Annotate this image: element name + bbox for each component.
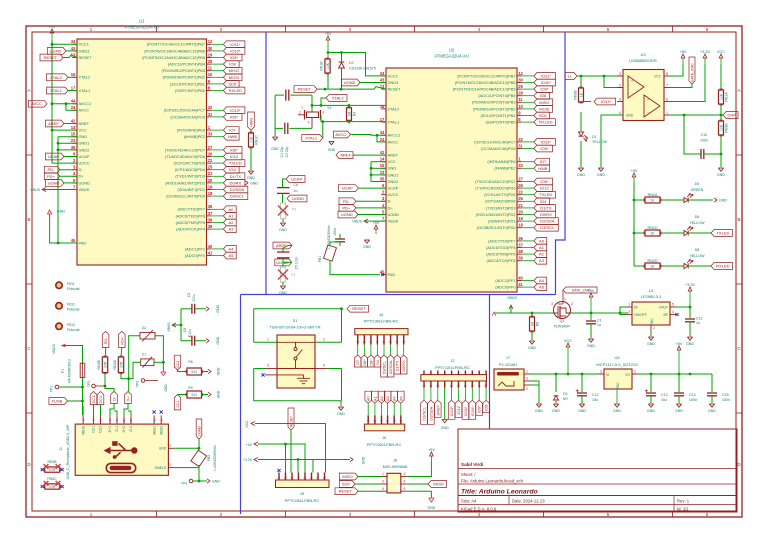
svg-text:RN3B: RN3B bbox=[47, 460, 57, 464]
svg-text:IO5*: IO5* bbox=[540, 146, 548, 151]
svg-text:UGND: UGND bbox=[79, 180, 91, 185]
svg-text:ATMEGA32U4-XU: ATMEGA32U4-XU bbox=[434, 54, 469, 59]
wire +5V rail U1 bbox=[52, 40, 77, 44]
svg-text:15: 15 bbox=[71, 132, 76, 137]
svg-text:VCC: VCC bbox=[717, 50, 725, 54]
label UCAP above C6 bbox=[286, 176, 305, 183]
svg-text:GND: GND bbox=[647, 342, 655, 346]
svg-text:GND: GND bbox=[337, 412, 345, 416]
svg-text:10K: 10K bbox=[719, 124, 723, 131]
svg-text:SBU1: SBU1 bbox=[152, 426, 156, 435]
svg-text:IO7: IO7 bbox=[229, 128, 236, 133]
svg-text:XTAL1: XTAL1 bbox=[79, 88, 91, 93]
capacitor C3 22p bbox=[285, 90, 287, 101]
svg-text:(ADC0)PF0: (ADC0)PF0 bbox=[495, 285, 516, 290]
svg-text:6: 6 bbox=[457, 385, 461, 387]
svg-text:GND: GND bbox=[552, 409, 560, 413]
svg-text:2: 2 bbox=[634, 370, 636, 374]
svg-text:AREF: AREF bbox=[340, 153, 351, 158]
svg-text:HWB: HWB bbox=[538, 166, 548, 171]
capacitor C15 100n bbox=[711, 374, 713, 392]
svg-text:27: 27 bbox=[518, 176, 523, 181]
svg-text:VBUS: VBUS bbox=[352, 219, 362, 223]
svg-text:D2/SDA: D2/SDA bbox=[230, 187, 245, 192]
svg-text:LM358BIDGKR: LM358BIDGKR bbox=[629, 58, 657, 63]
svg-text:(PCINT6/OC1B/OC4B/ADC13)PB6: (PCINT6/OC1B/OC4B/ADC13)PB6 bbox=[144, 48, 205, 53]
svg-text:1K: 1K bbox=[579, 92, 583, 97]
label MOSI at J6 bbox=[407, 483, 428, 485]
svg-text:GND: GND bbox=[613, 409, 621, 413]
diode D3 bbox=[555, 374, 557, 392]
svg-text:(XCK1/#CTS)PD5: (XCK1/#CTS)PD5 bbox=[174, 161, 205, 166]
svg-text:CC1: CC1 bbox=[92, 426, 96, 433]
svg-text:511: 511 bbox=[191, 370, 197, 374]
svg-text:A1: A1 bbox=[229, 213, 235, 218]
svg-text:GND3: GND3 bbox=[79, 48, 90, 53]
svg-text:IO12: IO12 bbox=[230, 154, 239, 159]
op-amp pin stubs bbox=[617, 75, 623, 77]
svg-text:M20-9990846: M20-9990846 bbox=[383, 464, 408, 469]
svg-text:(ADC0)PF0: (ADC0)PF0 bbox=[185, 253, 206, 258]
gnd under C11 bbox=[687, 337, 692, 340]
svg-text:C13: C13 bbox=[661, 393, 668, 397]
svg-text:GND3: GND3 bbox=[388, 80, 399, 85]
varistor Z2 bbox=[140, 332, 155, 339]
svg-text:D+: D+ bbox=[126, 396, 131, 402]
label AREF at U2 bbox=[336, 152, 353, 159]
svg-text:S1: S1 bbox=[168, 463, 172, 467]
resistor RN3A 22R usb bbox=[120, 347, 123, 357]
gnd under D1 bbox=[578, 168, 583, 171]
wire LL to op-amp bbox=[577, 75, 623, 77]
svg-text:RXLED: RXLED bbox=[539, 120, 552, 125]
svg-text:1: 1 bbox=[356, 341, 360, 343]
svg-text:MCP1117-5.0_SOT223: MCP1117-5.0_SOT223 bbox=[596, 362, 638, 367]
svg-text:F1: F1 bbox=[61, 369, 65, 373]
svg-text:XTAL2: XTAL2 bbox=[50, 75, 63, 80]
svg-text:2: 2 bbox=[362, 341, 366, 343]
label AREF lower bbox=[273, 242, 292, 249]
svg-text:GATE_CMD: GATE_CMD bbox=[691, 63, 695, 82]
svg-text:PD+: PD+ bbox=[47, 174, 56, 179]
svg-text:3: 3 bbox=[290, 477, 294, 479]
label RESET to reset net bbox=[294, 86, 317, 93]
svg-text:A1: A1 bbox=[168, 444, 172, 448]
svg-text:IO11*: IO11* bbox=[463, 406, 468, 416]
svg-text:GND: GND bbox=[79, 134, 88, 139]
svg-text:(PCINT5/OC1A/#OC4B/ADC12)PB5: (PCINT5/OC1A/#OC4B/ADC12)PB5 bbox=[142, 55, 205, 60]
svg-text:A7: A7 bbox=[115, 418, 119, 422]
polyfuse F1 DNP bbox=[282, 262, 284, 267]
svg-text:43: 43 bbox=[380, 77, 385, 82]
svg-text:C12: C12 bbox=[592, 393, 599, 397]
svg-text:11: 11 bbox=[518, 97, 523, 102]
svg-text:C5 100n: C5 100n bbox=[295, 256, 299, 269]
svg-text:FID1: FID1 bbox=[67, 282, 75, 286]
svg-text:RD-: RD- bbox=[103, 337, 108, 345]
svg-text:1M: 1M bbox=[347, 112, 351, 117]
svg-text:GND: GND bbox=[427, 506, 435, 510]
svg-text:41: 41 bbox=[208, 250, 213, 255]
gnd under AVCC label bbox=[329, 142, 334, 145]
svg-text:2: 2 bbox=[429, 385, 433, 387]
svg-text:100n: 100n bbox=[689, 398, 697, 402]
svg-text:(PCINT6/OC1B/OC4B/ADC13)PB6: (PCINT6/OC1B/OC4B/ADC13)PB6 bbox=[455, 80, 516, 85]
svg-text:25: 25 bbox=[208, 165, 213, 170]
svg-text:ATMEGA32U4-XU: ATMEGA32U4-XU bbox=[124, 25, 159, 30]
resistor RN1B pullup bbox=[325, 59, 330, 73]
resistor R3 1M bbox=[347, 108, 352, 121]
svg-text:YELLOW: YELLOW bbox=[690, 221, 706, 225]
blue partition line vertical left of U2 section bbox=[265, 32, 267, 295]
svg-text:GND: GND bbox=[388, 166, 397, 171]
svg-text:RXLED: RXLED bbox=[716, 264, 729, 269]
svg-text:45: 45 bbox=[71, 238, 76, 243]
svg-text:GND: GND bbox=[626, 114, 634, 118]
wire xtal2 node vertical bbox=[311, 95, 313, 110]
svg-text:(ADC5/TMS)PF5: (ADC5/TMS)PF5 bbox=[486, 252, 515, 257]
wire D+ net to usb bbox=[121, 373, 129, 391]
svg-text:3: 3 bbox=[386, 420, 390, 422]
gnd under F2 bbox=[280, 223, 285, 226]
svg-text:37: 37 bbox=[208, 211, 213, 216]
svg-text:30: 30 bbox=[208, 46, 213, 51]
svg-text:100n: 100n bbox=[333, 228, 337, 236]
svg-text:+: + bbox=[647, 98, 649, 102]
svg-text:+: + bbox=[631, 79, 633, 83]
wire VBUS to fuse bbox=[62, 346, 83, 364]
svg-text:(ADC7/TDI)PF7: (ADC7/TDI)PF7 bbox=[488, 238, 515, 243]
svg-text:IO12: IO12 bbox=[540, 186, 549, 191]
blue partition line vertical bottom-left box bbox=[240, 295, 242, 515]
svg-text:AREF: AREF bbox=[435, 404, 440, 415]
svg-text:YELLOW: YELLOW bbox=[592, 140, 608, 144]
svg-text:A1: A1 bbox=[539, 245, 545, 250]
svg-text:D2/SDA: D2/SDA bbox=[388, 360, 393, 374]
svg-text:R6: R6 bbox=[188, 360, 193, 364]
svg-text:2: 2 bbox=[404, 472, 406, 476]
label GND right arrow at 3.3 rail bbox=[319, 459, 351, 461]
svg-text:C1: C1 bbox=[597, 319, 602, 323]
svg-text:RESET: RESET bbox=[388, 87, 402, 92]
svg-text:A3: A3 bbox=[385, 396, 390, 401]
svg-text:TS06-66T-30-B4-100-G-SMT-TR: TS06-66T-30-B4-100-G-SMT-TR bbox=[270, 326, 321, 330]
svg-text:MOSI: MOSI bbox=[433, 482, 443, 487]
power VCC at J7 bbox=[567, 347, 569, 374]
label UCAP bbox=[45, 153, 64, 160]
title block bbox=[458, 429, 737, 512]
wire usb shield to FB2 bbox=[174, 467, 199, 469]
svg-text:IO8: IO8 bbox=[540, 93, 547, 98]
svg-text:C9: C9 bbox=[187, 293, 191, 297]
svg-text:D2: D2 bbox=[349, 61, 354, 65]
svg-text:10K: 10K bbox=[326, 62, 330, 69]
svg-text:29: 29 bbox=[518, 84, 523, 89]
svg-text:C4 22p: C4 22p bbox=[280, 147, 284, 158]
svg-text:MISO: MISO bbox=[229, 68, 239, 73]
svg-text:D1: D1 bbox=[592, 135, 597, 139]
svg-text:3: 3 bbox=[369, 341, 373, 343]
svg-text:(PCINT7/OC0A/OC1C/#RTS)PB7: (PCINT7/OC0A/OC1C/#RTS)PB7 bbox=[147, 42, 205, 47]
svg-text:(PDI/MOSI/PCINT2)PB2: (PDI/MOSI/PCINT2)PB2 bbox=[473, 106, 515, 111]
svg-text:2: 2 bbox=[653, 326, 655, 330]
svg-text:FB1: FB1 bbox=[318, 256, 322, 262]
svg-text:4: 4 bbox=[297, 477, 301, 479]
label PD+ bbox=[44, 173, 60, 180]
svg-text:IO11*: IO11* bbox=[541, 73, 551, 78]
svg-text:AVCC: AVCC bbox=[388, 139, 399, 144]
svg-text:22: 22 bbox=[208, 158, 213, 163]
svg-text:PPTC101LFBN-RC: PPTC101LFBN-RC bbox=[435, 365, 470, 370]
varistor Z1 bbox=[141, 359, 154, 366]
svg-text:1K: 1K bbox=[650, 199, 655, 203]
svg-text:PD-: PD- bbox=[48, 167, 56, 172]
svg-text:(PCINT7/OC0A/OC1C/#RTS)PB7: (PCINT7/OC0A/OC1C/#RTS)PB7 bbox=[457, 73, 515, 78]
capacitor C11 1u bbox=[689, 307, 691, 318]
svg-text:IO4: IO4 bbox=[229, 167, 236, 172]
svg-text:1u: 1u bbox=[696, 321, 700, 325]
svg-text:GND: GND bbox=[650, 318, 654, 326]
svg-text:RESET: RESET bbox=[352, 306, 366, 311]
svg-text:RN3B: RN3B bbox=[725, 123, 729, 133]
power +5V op-amp bbox=[682, 58, 684, 64]
svg-text:AREF: AREF bbox=[388, 153, 399, 158]
svg-text:1: 1 bbox=[301, 106, 303, 110]
wire J6 pin6 to gnd bbox=[407, 491, 432, 498]
blue partition line vertical above title block bbox=[489, 295, 491, 430]
svg-text:A3: A3 bbox=[229, 227, 235, 232]
svg-text:GND: GND bbox=[441, 426, 449, 430]
svg-text:24: 24 bbox=[71, 105, 76, 110]
svg-text:−: − bbox=[631, 92, 633, 96]
svg-text:(PD0/MISO/PCINT3)PB3: (PD0/MISO/PCINT3)PB3 bbox=[472, 100, 515, 105]
svg-text:D-: D- bbox=[388, 199, 393, 204]
wire LED row 1 bbox=[634, 199, 645, 201]
svg-text:GND: GND bbox=[528, 346, 536, 350]
svg-text:IO9*: IO9* bbox=[477, 405, 482, 413]
wire J7 pins 2 3 to gnd bbox=[530, 381, 539, 385]
svg-text:IO10*: IO10* bbox=[230, 48, 241, 53]
label HWB vertical above RN1C bbox=[248, 112, 255, 130]
svg-text:1: 1 bbox=[628, 303, 630, 307]
svg-text:VCC: VCC bbox=[564, 339, 572, 343]
svg-text:Z2: Z2 bbox=[142, 326, 146, 330]
svg-text:10: 10 bbox=[484, 384, 488, 388]
svg-text:D3/SCL: D3/SCL bbox=[422, 406, 427, 420]
wire regulator input jog bbox=[620, 307, 626, 313]
svg-text:S1: S1 bbox=[293, 319, 298, 323]
svg-text:VOUT: VOUT bbox=[659, 306, 668, 310]
wire regulator output bbox=[676, 306, 690, 308]
svg-text:1: 1 bbox=[564, 297, 566, 301]
power +5V at J6 bbox=[430, 456, 432, 461]
power VCC op-amp bbox=[720, 58, 722, 64]
svg-text:PD+: PD+ bbox=[342, 205, 351, 210]
svg-text:B: B bbox=[737, 217, 740, 222]
label UCAP at U2 bbox=[338, 185, 358, 192]
svg-text:2: 2 bbox=[571, 302, 573, 306]
label AVCC at U2 bbox=[334, 131, 351, 138]
wire 3v3 to pin6 bbox=[670, 64, 705, 102]
svg-text:33: 33 bbox=[208, 132, 213, 137]
svg-text:RN2A: RN2A bbox=[648, 193, 658, 197]
svg-text:IO13*: IO13* bbox=[449, 406, 454, 416]
svg-text:3: 3 bbox=[436, 385, 440, 387]
svg-text:VBUS: VBUS bbox=[167, 322, 171, 332]
svg-text:D-: D- bbox=[112, 396, 117, 401]
svg-text:A4: A4 bbox=[539, 278, 545, 283]
svg-text:32: 32 bbox=[208, 105, 213, 110]
svg-text:GND2: GND2 bbox=[388, 179, 399, 184]
svg-text:D7: D7 bbox=[355, 360, 360, 365]
wire C4 row bbox=[275, 127, 283, 129]
svg-text:UVCC: UVCC bbox=[388, 192, 399, 197]
svg-text:(#HWB)PE2: (#HWB)PE2 bbox=[184, 134, 205, 139]
svg-text:IO13*: IO13* bbox=[601, 99, 612, 104]
svg-text:U5: U5 bbox=[614, 355, 620, 360]
svg-text:D-1: D-1 bbox=[115, 426, 119, 432]
svg-text:D4: D4 bbox=[375, 359, 380, 365]
svg-text:TP3: TP3 bbox=[136, 381, 140, 387]
svg-text:2: 2 bbox=[526, 387, 528, 391]
gnd reset switch bbox=[338, 407, 343, 410]
svg-text:(ADC4/TCK)PF4: (ADC4/TCK)PF4 bbox=[487, 258, 517, 263]
svg-text:3: 3 bbox=[551, 302, 553, 306]
svg-text:AVCC: AVCC bbox=[79, 108, 90, 113]
svg-text:A0: A0 bbox=[229, 207, 235, 212]
svg-text:GND: GND bbox=[708, 409, 716, 413]
svg-text:MISO: MISO bbox=[342, 474, 352, 479]
label RXLED bbox=[711, 263, 733, 270]
svg-text:HWB: HWB bbox=[249, 118, 254, 127]
svg-text:IO6*: IO6* bbox=[540, 179, 548, 184]
svg-text:(ADC1)PF1: (ADC1)PF1 bbox=[185, 246, 205, 251]
svg-text:(SS/PCINT0)PB0: (SS/PCINT0)PB0 bbox=[175, 88, 206, 93]
svg-text:VBUS: VBUS bbox=[79, 187, 90, 192]
resistor RN2A bbox=[645, 197, 660, 203]
label AREF bbox=[45, 120, 64, 127]
wire LED row 2 bbox=[634, 232, 645, 234]
svg-text:C14: C14 bbox=[689, 393, 696, 397]
svg-text:UVCC: UVCC bbox=[79, 161, 90, 166]
svg-text:20: 20 bbox=[208, 178, 213, 183]
svg-text:4: 4 bbox=[308, 121, 310, 125]
svg-text:D3/SCL: D3/SCL bbox=[382, 360, 387, 374]
svg-text:Id: 1/1: Id: 1/1 bbox=[677, 507, 689, 512]
svg-text:D+2: D+2 bbox=[122, 426, 126, 432]
wire J6 pin2 to +5V bbox=[407, 461, 432, 477]
wire +5V to U2 VCC1 bbox=[328, 53, 386, 76]
svg-text:9: 9 bbox=[477, 385, 481, 387]
polyfuse F2 DNP bbox=[280, 203, 285, 219]
svg-text:GND: GND bbox=[719, 198, 727, 202]
svg-text:PPTC081LFBN-RC: PPTC081LFBN-RC bbox=[285, 498, 320, 503]
svg-text:UGND: UGND bbox=[48, 180, 60, 185]
svg-text:IO4: IO4 bbox=[540, 199, 547, 204]
svg-text:24: 24 bbox=[380, 137, 385, 142]
svg-text:RXLED: RXLED bbox=[229, 88, 242, 93]
svg-text:UCAP: UCAP bbox=[48, 154, 59, 159]
svg-text:PPTC061LFBN-RC: PPTC061LFBN-RC bbox=[367, 442, 402, 447]
svg-text:4: 4 bbox=[380, 420, 384, 422]
label XTAL2 at crystal bbox=[326, 95, 347, 102]
wire xtal1 row to U2 bbox=[321, 115, 386, 122]
gnd under R8 bbox=[529, 341, 534, 344]
svg-text:FID2: FID2 bbox=[67, 303, 75, 307]
svg-text:RN1C: RN1C bbox=[255, 135, 259, 145]
svg-text:AVCC1: AVCC1 bbox=[79, 101, 92, 106]
svg-text:(OC0B/SCL/INT0)PD0: (OC0B/SCL/INT0)PD0 bbox=[477, 225, 517, 230]
svg-text:Y3: Y3 bbox=[327, 106, 331, 110]
wire Z2 leads bbox=[129, 336, 140, 379]
svg-text:(RXD1/AIN1/INT2)PD2: (RXD1/AIN1/INT2)PD2 bbox=[165, 180, 205, 185]
svg-text:CC2: CC2 bbox=[98, 396, 103, 404]
svg-text:26: 26 bbox=[208, 151, 213, 156]
fiducial FID3 bbox=[56, 323, 62, 329]
svg-text:(ADC6/TDO)PF6: (ADC6/TDO)PF6 bbox=[486, 245, 515, 250]
label UGND at U2 GND3 bbox=[341, 79, 360, 86]
svg-text:PJ-102AH: PJ-102AH bbox=[499, 362, 517, 367]
svg-text:44: 44 bbox=[380, 130, 385, 135]
svg-text:GND: GND bbox=[164, 384, 168, 392]
svg-text:100n: 100n bbox=[700, 139, 708, 143]
svg-text:4: 4 bbox=[404, 480, 406, 484]
svg-text:4: 4 bbox=[376, 341, 380, 343]
svg-text:FUSB: FUSB bbox=[52, 399, 63, 404]
svg-text:SHIELD: SHIELD bbox=[154, 466, 166, 470]
svg-text:A4: A4 bbox=[392, 395, 397, 401]
svg-text:5: 5 bbox=[619, 97, 621, 101]
wire AVCC1 AVCC join bbox=[377, 135, 386, 142]
svg-text:C15: C15 bbox=[722, 393, 729, 397]
label CHP bbox=[723, 112, 738, 119]
svg-text:35: 35 bbox=[71, 145, 76, 150]
label RESET to U1 pin13 bbox=[40, 54, 63, 61]
labels CC1 CC2 to usb bbox=[90, 392, 97, 405]
svg-text:34: 34 bbox=[71, 39, 76, 44]
svg-text:39: 39 bbox=[208, 224, 213, 229]
svg-text:C6: C6 bbox=[294, 183, 299, 187]
svg-text:D+: D+ bbox=[388, 205, 394, 210]
led D1 YELLOW bbox=[580, 112, 582, 131]
svg-text:BP: BP bbox=[663, 313, 668, 317]
svg-text:GND: GND bbox=[675, 409, 683, 413]
svg-text:+3.3V: +3.3V bbox=[700, 50, 710, 54]
capacitor C12 10u bbox=[581, 374, 583, 392]
label GATE_CMD at Q1 gate bbox=[563, 287, 597, 293]
svg-text:RESET: RESET bbox=[339, 489, 353, 494]
svg-text:(T0/OC4D/ADC10)PD7: (T0/OC4D/ADC10)PD7 bbox=[475, 179, 515, 184]
svg-text:RN3B: RN3B bbox=[573, 90, 577, 100]
svg-text:31: 31 bbox=[518, 143, 523, 148]
svg-text:22R: 22R bbox=[103, 361, 107, 368]
svg-text:−: − bbox=[647, 111, 649, 115]
capacitor C1 1u bbox=[590, 313, 592, 320]
svg-text:D+1: D+1 bbox=[108, 426, 112, 432]
svg-text:Sheet: /: Sheet: / bbox=[461, 472, 476, 477]
gnd op-amp bbox=[598, 168, 603, 171]
gnd D3 bbox=[553, 404, 558, 407]
gnd J6 bbox=[429, 498, 434, 502]
svg-text:IO6*: IO6* bbox=[230, 147, 238, 152]
wire opamp minus input bbox=[604, 76, 623, 88]
svg-text:(SS/PCINT0)PB0: (SS/PCINT0)PB0 bbox=[485, 120, 516, 125]
svg-text:UGND: UGND bbox=[344, 80, 356, 85]
svg-text:CHP: CHP bbox=[727, 113, 736, 118]
svg-text:TP1: TP1 bbox=[49, 386, 53, 392]
svg-text:B5: B5 bbox=[99, 418, 103, 422]
svg-text:VBUS: VBUS bbox=[52, 344, 56, 354]
